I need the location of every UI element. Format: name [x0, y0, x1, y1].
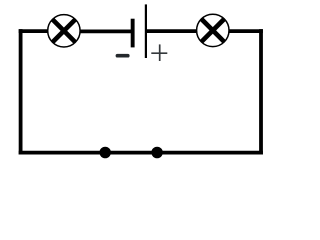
battery B1 positive plate (long thin line)	[145, 4, 147, 58]
wire: right side of loop	[259, 29, 263, 154]
wire: battery positive plate to lamp L2	[147, 29, 197, 33]
battery B1 negative plate (short thick bar)	[131, 19, 135, 48]
label: minus sign	[116, 54, 130, 58]
junction node A (left dot)	[99, 147, 111, 159]
wire: lamp L1 to battery negative plate	[80, 30, 131, 34]
junction node B (right dot)	[151, 147, 163, 159]
label: plus sign	[151, 44, 167, 61]
wire: top-left segment (corner to lamp L1)	[19, 29, 48, 33]
wire: bottom of loop	[19, 151, 263, 155]
lamp L1 (circle with X)	[48, 15, 80, 47]
wire: left side of loop	[19, 29, 23, 154]
lamp L2 (circle with X)	[197, 14, 229, 46]
wire: lamp L2 to top-right corner	[229, 29, 263, 33]
